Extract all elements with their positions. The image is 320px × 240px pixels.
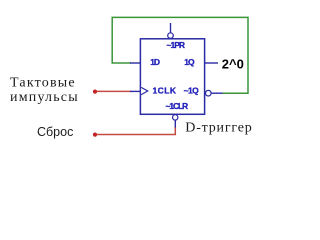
svg-text:~1Q: ~1Q: [184, 86, 200, 96]
svg-text:1CLK: 1CLK: [153, 85, 177, 95]
svg-text:D-триггер: D-триггер: [185, 120, 252, 135]
svg-text:1Q: 1Q: [184, 57, 195, 67]
svg-text:2^0: 2^0: [222, 56, 244, 71]
svg-text:~1CLR: ~1CLR: [166, 101, 189, 111]
svg-text:1D: 1D: [150, 57, 160, 67]
svg-text:импульсы: импульсы: [10, 90, 79, 105]
svg-text:~1PR: ~1PR: [167, 40, 186, 50]
svg-text:Тактовые: Тактовые: [10, 76, 76, 91]
svg-text:Сброс: Сброс: [37, 125, 73, 139]
